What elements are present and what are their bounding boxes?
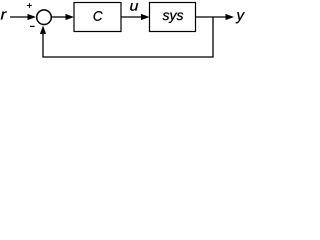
node y label <box>236 12 245 23</box>
block C rectangle <box>74 3 121 32</box>
feedback wire from output junction down, left and up to summing junction <box>40 17 213 57</box>
summing junction S1 <box>37 10 52 25</box>
wire r to summing junction <box>10 14 36 20</box>
block C label <box>94 11 103 21</box>
block sys label <box>163 12 170 20</box>
minus sign <box>30 25 35 27</box>
plus sign <box>27 3 32 8</box>
wire C to sys <box>121 14 150 20</box>
node r label <box>1 11 7 19</box>
block sys rectangle <box>150 3 196 32</box>
wire sys to output y <box>196 14 235 20</box>
node u label <box>130 3 138 11</box>
background <box>0 0 247 64</box>
wire summing junction to C <box>52 14 75 20</box>
